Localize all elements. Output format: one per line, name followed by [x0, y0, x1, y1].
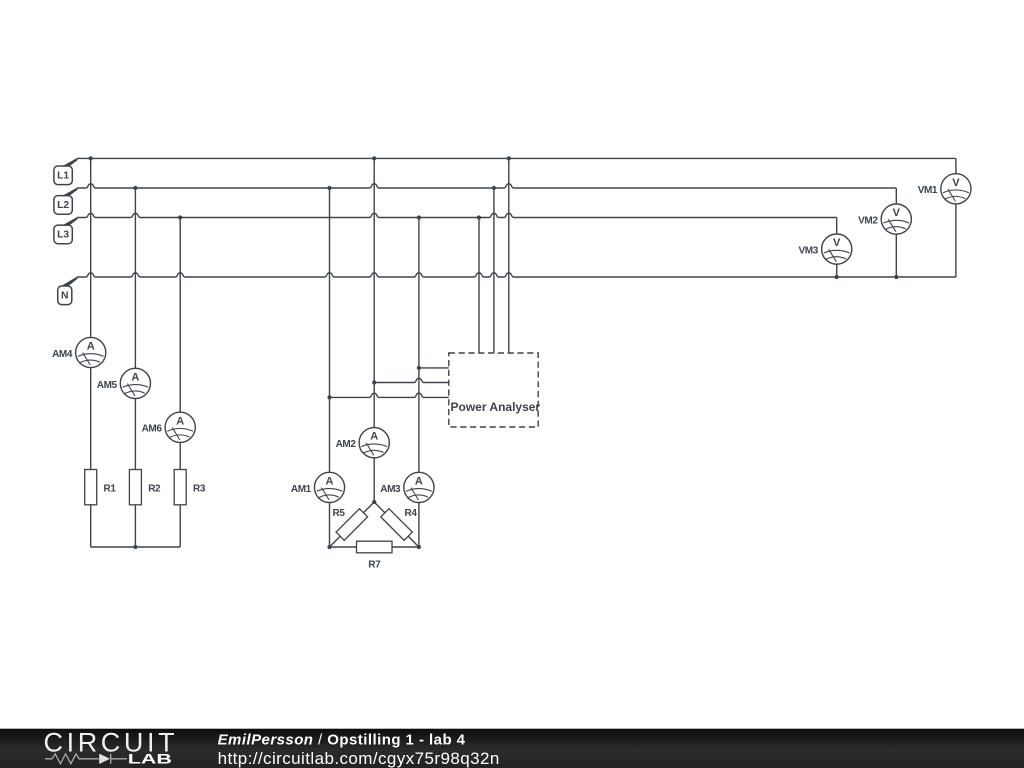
- junction L2/branch2: [133, 186, 137, 190]
- junction L1/AM2: [372, 156, 376, 160]
- wire delta right diagonal: [374, 502, 419, 547]
- svg-text:VM2: VM2: [858, 216, 878, 227]
- wire branch AM2 (L1 to delta top): [373, 158, 375, 502]
- junction delta top: [372, 500, 376, 504]
- voltmeter VM3: [799, 234, 852, 264]
- svg-text:A: A: [326, 475, 334, 487]
- svg-text:Power Analyser: Power Analyser: [451, 400, 541, 414]
- wire power analyser input 1: [419, 367, 449, 369]
- junction L2/PA2: [492, 186, 496, 190]
- svg-text:L1: L1: [57, 170, 69, 181]
- node flag L3: [54, 217, 78, 244]
- attribution text: [218, 731, 500, 768]
- wire branch 1 (L1 to star bottom): [90, 158, 92, 547]
- footer bar: [0, 729, 1024, 768]
- junction PA wire 2: [372, 380, 376, 384]
- voltmeter VM2: [858, 204, 911, 234]
- svg-text:V: V: [893, 207, 901, 219]
- ammeter AM2: [336, 428, 390, 458]
- wire branch AM1 (L2 to delta bottom-left): [329, 188, 331, 547]
- junction PA wire 1: [417, 366, 421, 370]
- wire power analyser input 3: [330, 393, 449, 397]
- svg-text:AM6: AM6: [142, 424, 163, 435]
- node flag L1: [54, 158, 78, 185]
- wire power analyser top 3 (from L1): [508, 158, 510, 353]
- resistor R7: [357, 541, 393, 570]
- wire star bottom: [91, 546, 181, 548]
- wire bus L1: [77, 157, 956, 159]
- wire VM2 drop: [895, 188, 897, 277]
- wire power analyser input 2: [374, 378, 449, 382]
- svg-text:R4: R4: [405, 508, 418, 519]
- junction L3/AM3: [417, 215, 421, 219]
- wire bus L3: [77, 213, 837, 217]
- svg-text:L2: L2: [57, 200, 69, 211]
- svg-text:LAB: LAB: [128, 751, 172, 766]
- junction L3/branch3: [178, 215, 182, 219]
- junction N/VM2: [894, 275, 898, 279]
- wire branch 2 (L2 to star bottom): [134, 188, 136, 547]
- svg-text:R7: R7: [368, 560, 381, 571]
- wire bus N: [77, 273, 956, 277]
- svg-text:A: A: [415, 475, 423, 487]
- svg-text:AM3: AM3: [380, 484, 401, 495]
- svg-text:EmilPersson / Opstilling 1 - l: EmilPersson / Opstilling 1 - lab 4: [218, 731, 466, 748]
- ammeter AM5: [97, 368, 151, 398]
- ammeter AM4: [52, 337, 106, 367]
- junction L1/PA3: [507, 156, 511, 160]
- svg-text:R5: R5: [333, 508, 346, 519]
- wire power analyser top 2 (from L2): [493, 188, 495, 353]
- junction delta bottom-right: [417, 545, 421, 549]
- junction PA wire 3: [327, 395, 331, 399]
- wire VM1 drop: [955, 158, 957, 277]
- ammeter AM3: [380, 472, 434, 502]
- svg-text:A: A: [370, 431, 378, 443]
- ammeter AM6: [142, 412, 196, 442]
- svg-text:http://circuitlab.com/cgyx75r9: http://circuitlab.com/cgyx75r98q32n: [218, 749, 500, 768]
- wire power analyser top 1 (from L3): [478, 218, 480, 354]
- circuitlab logo: [44, 728, 179, 767]
- resistor R4: [381, 508, 418, 540]
- wire branch 3 (L3 to star bottom): [179, 218, 181, 548]
- junction delta bottom-left: [327, 545, 331, 549]
- resistor R1: [85, 470, 117, 505]
- wire branch AM3 (L3 to delta bottom-right): [418, 218, 420, 548]
- voltmeter VM1: [918, 174, 971, 204]
- svg-text:A: A: [176, 415, 184, 427]
- svg-text:R3: R3: [193, 484, 206, 495]
- resistor R2: [129, 470, 161, 505]
- svg-text:AM4: AM4: [52, 349, 73, 360]
- resistor R3: [174, 470, 206, 505]
- svg-text:V: V: [952, 177, 960, 189]
- svg-text:A: A: [87, 341, 95, 353]
- wire VM3 drop: [836, 218, 838, 278]
- power analyser box U1: [449, 353, 541, 427]
- node flag L2: [54, 187, 78, 214]
- wire bus L2: [77, 184, 896, 188]
- wire delta bottom: [330, 546, 419, 548]
- svg-text:AM1: AM1: [291, 484, 312, 495]
- svg-text:R1: R1: [104, 484, 117, 495]
- svg-text:R2: R2: [148, 484, 161, 495]
- svg-text:VM3: VM3: [799, 246, 819, 257]
- junction L2/AM1: [327, 186, 331, 190]
- svg-text:AM2: AM2: [336, 439, 357, 450]
- junction L3/PA1: [477, 215, 481, 219]
- svg-text:V: V: [833, 237, 841, 249]
- ammeter AM1: [291, 472, 345, 502]
- wire delta left diagonal: [330, 502, 375, 547]
- svg-text:A: A: [131, 371, 139, 383]
- svg-text:N: N: [61, 290, 68, 301]
- node flag N: [58, 276, 78, 304]
- resistor R5: [333, 508, 368, 540]
- svg-text:VM1: VM1: [918, 185, 938, 196]
- junction star bottom: [133, 545, 137, 549]
- svg-text:AM5: AM5: [97, 380, 118, 391]
- junction N/VM3: [835, 275, 839, 279]
- svg-text:L3: L3: [57, 230, 69, 241]
- junction L1/branch1: [89, 156, 93, 160]
